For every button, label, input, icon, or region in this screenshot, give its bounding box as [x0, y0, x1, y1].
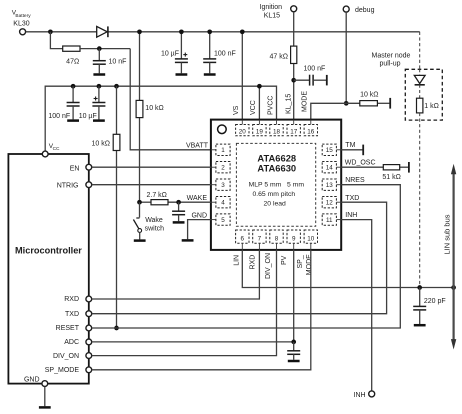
svg-text:MODE: MODE — [301, 91, 308, 112]
svg-text:0.65 mm pitch: 0.65 mm pitch — [252, 191, 295, 198]
wire EN — [92, 166, 211, 168]
pin 1 marker — [218, 125, 227, 134]
svg-text:SP_: SP_ — [297, 255, 304, 268]
ground (S1) — [134, 239, 146, 242]
resistor R1 47R — [63, 46, 80, 51]
svg-text:NTRIG: NTRIG — [57, 182, 79, 189]
svg-text:VS: VS — [233, 105, 240, 115]
wire GND (IC) — [188, 220, 211, 240]
svg-text:ATA6630: ATA6630 — [257, 163, 296, 174]
svg-text:51 kΩ: 51 kΩ — [382, 174, 400, 181]
node C2 tap — [179, 29, 184, 34]
ground (C8) — [288, 360, 300, 363]
svg-text:NRES: NRES — [345, 177, 365, 184]
wire TM — [341, 149, 362, 151]
pin DIV_ON (uC) — [86, 353, 92, 359]
pin 2 — [216, 162, 230, 173]
svg-text:14: 14 — [326, 165, 334, 172]
resistor R8 51k — [383, 165, 399, 170]
svg-text:8: 8 — [275, 235, 279, 242]
svg-text:Master node: Master node — [372, 52, 411, 59]
pin 16 — [304, 125, 317, 136]
pin SP_MODE (uC) — [86, 367, 92, 373]
svg-text:10 µF: 10 µF — [161, 50, 179, 57]
svg-text:11: 11 — [326, 217, 333, 224]
capacitor C3 100nF (VBatt) — [209, 32, 211, 59]
pin 12 — [322, 197, 336, 208]
wire 47R to VBATT feed — [80, 48, 130, 50]
svg-text:20 lead: 20 lead — [264, 201, 287, 208]
wire uC ground — [44, 387, 46, 407]
pin 5 — [216, 214, 230, 225]
svg-text:5: 5 — [221, 217, 225, 224]
svg-text:TXD: TXD — [65, 311, 79, 318]
svg-text:10 kΩ: 10 kΩ — [145, 105, 163, 112]
svg-text:VBATT: VBATT — [186, 143, 209, 150]
terminal debug — [343, 6, 349, 12]
svg-text:Ignition: Ignition — [260, 4, 283, 11]
svg-text:KL_15: KL_15 — [286, 94, 293, 114]
wire NTRIG — [92, 184, 211, 186]
node C4 tap — [71, 84, 76, 89]
ground (IC GND) — [182, 239, 194, 242]
svg-text:10: 10 — [307, 235, 315, 242]
wire VS feed — [241, 32, 243, 120]
svg-text:RESET: RESET — [56, 325, 80, 332]
pin 17 — [287, 125, 300, 136]
wire RXD — [92, 250, 260, 299]
resistor R6 10k (WAKE pull-up) — [136, 100, 143, 117]
node VCC tap — [257, 84, 262, 89]
node debug/MODE — [344, 101, 349, 106]
diode D1 — [97, 26, 108, 37]
capacitor C7 100nF (KL_15) — [294, 79, 310, 81]
svg-text:100 nF: 100 nF — [214, 50, 236, 57]
svg-text:DIV_ON: DIV_ON — [265, 253, 272, 279]
wire INH — [341, 220, 372, 391]
svg-text:16: 16 — [307, 128, 315, 135]
wire LIN — [242, 250, 453, 288]
svg-text:47 kΩ: 47 kΩ — [270, 54, 288, 61]
ground (C2) — [176, 73, 188, 76]
svg-text:47Ω: 47Ω — [66, 59, 79, 66]
wake switch S1 — [139, 202, 141, 217]
node WAKE/pull junction — [137, 200, 142, 205]
svg-text:17: 17 — [290, 128, 298, 135]
svg-text:Wake: Wake — [145, 217, 163, 224]
node NRES/RESET junction — [114, 326, 119, 331]
node VS tap — [240, 29, 245, 34]
wire to 47R — [50, 32, 62, 49]
pin 18 — [270, 125, 283, 136]
svg-text:KL15: KL15 — [264, 12, 280, 19]
svg-text:9: 9 — [292, 235, 296, 242]
resistor R3 10k (MODE) — [360, 101, 378, 106]
node LIN/bus junction — [451, 285, 456, 290]
pin 1 — [216, 144, 230, 155]
svg-text:RXD: RXD — [64, 296, 79, 303]
pin GND (uC) — [42, 381, 48, 387]
pin 7 — [253, 230, 266, 243]
capacitor C2 10uF (VBatt) — [180, 32, 182, 59]
wire WAKE pull-up — [139, 32, 141, 101]
pin 9 — [287, 230, 300, 243]
pin 15 — [322, 144, 336, 155]
svg-text:220 pF: 220 pF — [424, 298, 446, 305]
pin RXD (uC) — [86, 296, 92, 302]
svg-text:19: 19 — [256, 128, 264, 135]
svg-text:MLP 5 mm 5 mm: MLP 5 mm 5 mm — [249, 182, 305, 189]
svg-text:100 nF: 100 nF — [48, 113, 70, 120]
wire DIV_ON — [92, 250, 277, 356]
exposed pad — [236, 143, 315, 226]
svg-text:13: 13 — [326, 182, 334, 189]
wire TXD — [92, 202, 387, 314]
svg-text:Microcontroller: Microcontroller — [15, 245, 82, 255]
svg-text:20: 20 — [239, 128, 247, 135]
wire dashed pull-up to LIN — [419, 113, 421, 288]
wire VCC pin feed — [258, 86, 260, 119]
node C5 tap — [97, 84, 102, 89]
polarity + (C5) — [94, 98, 98, 100]
svg-text:INH: INH — [354, 392, 366, 399]
svg-text:switch: switch — [145, 225, 165, 232]
wire NRES — [92, 185, 401, 328]
svg-text:LIN sub bus: LIN sub bus — [442, 214, 451, 254]
svg-text:RXD: RXD — [250, 255, 257, 270]
svg-text:TXD: TXD — [345, 195, 359, 202]
svg-text:ATA6628: ATA6628 — [257, 152, 296, 163]
wire dashed VBatt to pull-up — [419, 32, 421, 70]
svg-text:TM: TM — [345, 142, 355, 149]
capacitor C9 220pF — [419, 288, 421, 307]
svg-text:PV: PV — [281, 255, 288, 265]
ground (C4) — [67, 119, 79, 122]
svg-text:EN: EN — [70, 165, 80, 172]
capacitor C4 100nF (VCC) — [72, 86, 74, 102]
svg-text:ADC: ADC — [64, 339, 79, 346]
wire WAKE — [140, 201, 152, 203]
svg-text:1 kΩ: 1 kΩ — [424, 103, 439, 110]
terminator bar (TM) — [362, 145, 364, 156]
node LIN/pull-up junction — [417, 285, 422, 290]
wire ADC — [92, 341, 294, 343]
svg-text:18: 18 — [273, 128, 281, 135]
pin 3 — [216, 179, 230, 190]
svg-text:SP_MODE: SP_MODE — [45, 367, 80, 374]
node KL_15/100nF — [291, 78, 296, 83]
node WAKE pull tap (rail) — [137, 29, 142, 34]
terminal KL15 ignition — [291, 6, 297, 12]
wire VBATT feed — [130, 49, 211, 150]
svg-text:Battery: Battery — [15, 13, 31, 19]
terminator bar (C7) — [326, 75, 328, 86]
capacitor C1 10nF — [98, 49, 100, 61]
wire KL_15 — [293, 12, 295, 46]
pin 10 — [304, 230, 317, 243]
ground (C1) — [93, 73, 105, 76]
pin 14 — [322, 162, 336, 173]
node NRES pull tap — [114, 84, 119, 89]
node PV/ADC junction — [291, 340, 296, 345]
wire SP_MODE — [92, 250, 311, 370]
node C3 tap — [207, 29, 212, 34]
ground (uC) — [39, 406, 51, 409]
svg-text:4: 4 — [221, 200, 225, 207]
svg-text:KL30: KL30 — [13, 20, 29, 27]
wire WD_OSC — [341, 166, 383, 168]
svg-text:6: 6 — [241, 235, 245, 242]
wire VBatt rail — [26, 31, 420, 33]
svg-text:MODE: MODE — [306, 254, 313, 275]
resistor R7 2.7k — [151, 200, 168, 205]
svg-text:GND: GND — [24, 376, 40, 383]
pin EN (uC) — [86, 164, 92, 170]
svg-text:LIN: LIN — [233, 255, 240, 266]
ground (C9) — [414, 324, 426, 327]
pin VCC (uC) — [42, 151, 48, 157]
node VBatt-47R tap — [48, 29, 53, 34]
pin 6 — [236, 230, 249, 243]
pin TXD (uC) — [86, 311, 92, 317]
svg-text:CC: CC — [53, 146, 60, 152]
node WAKE/C6 junction — [176, 200, 181, 205]
svg-text:PVCC: PVCC — [267, 96, 274, 115]
wire MODE net — [311, 103, 360, 119]
polarity + (C2) — [183, 54, 187, 56]
svg-text:15: 15 — [326, 147, 334, 154]
pin 13 — [322, 179, 336, 190]
pin 20 — [236, 125, 249, 136]
terminal INH — [369, 391, 375, 397]
svg-text:3: 3 — [221, 182, 225, 189]
svg-text:2: 2 — [221, 165, 225, 172]
microcontroller U2 box — [8, 154, 88, 384]
terminal KL30 — [20, 29, 26, 35]
capacitor C8 (PV) — [293, 342, 295, 351]
pin 11 — [322, 214, 336, 225]
node 47R/10nF junction — [97, 46, 102, 51]
wire NRES pull-up — [116, 86, 118, 134]
svg-text:pull-up: pull-up — [379, 61, 400, 68]
svg-text:debug: debug — [355, 7, 375, 14]
pin ADC (uC) — [86, 339, 92, 345]
svg-text:10 nF: 10 nF — [109, 59, 127, 66]
wire VCC rail — [45, 86, 276, 151]
svg-text:10 kΩ: 10 kΩ — [360, 91, 378, 98]
svg-text:INH: INH — [345, 212, 357, 219]
master node pull-up box — [405, 69, 442, 120]
svg-text:12: 12 — [326, 200, 334, 207]
svg-text:10 µF: 10 µF — [79, 113, 97, 120]
resistor R4 1k (pull-up) — [417, 98, 423, 113]
LIN sub bus line — [453, 173, 455, 342]
diode D2 (pull-up) — [419, 69, 421, 75]
svg-text:10 kΩ: 10 kΩ — [92, 141, 110, 148]
pin NTRIG (uC) — [86, 182, 92, 188]
pin 8 — [270, 230, 283, 243]
svg-text:1: 1 — [221, 147, 225, 154]
terminator bar (MODE) — [389, 98, 391, 109]
ground (C3) — [204, 73, 216, 76]
capacitor C5 10uF (VCC) — [98, 86, 100, 102]
resistor R2 47k — [291, 46, 297, 63]
ground (C5) — [93, 119, 105, 122]
terminator bar (WD_OSC) — [408, 162, 410, 173]
svg-text:DIV_ON: DIV_ON — [53, 353, 79, 360]
pin RESET (uC) — [86, 325, 92, 331]
wire debug — [345, 12, 347, 103]
svg-text:WAKE: WAKE — [187, 195, 208, 202]
svg-text:100 nF: 100 nF — [304, 65, 326, 72]
op IC U1 ATA6628/ATA6630 body — [211, 120, 341, 250]
svg-text:GND: GND — [191, 212, 207, 219]
capacitor C6 (WAKE) — [178, 202, 180, 211]
svg-text:7: 7 — [258, 235, 262, 242]
ground (C6) — [173, 221, 185, 224]
svg-text:WD_OSC: WD_OSC — [345, 160, 376, 167]
svg-text:VCC: VCC — [250, 100, 257, 115]
pin 19 — [253, 125, 266, 136]
pin 4 — [216, 197, 230, 208]
wire PV — [293, 250, 295, 342]
svg-text:2.7 kΩ: 2.7 kΩ — [147, 192, 167, 199]
resistor R5 10k (NRES pull-up) — [113, 134, 120, 150]
